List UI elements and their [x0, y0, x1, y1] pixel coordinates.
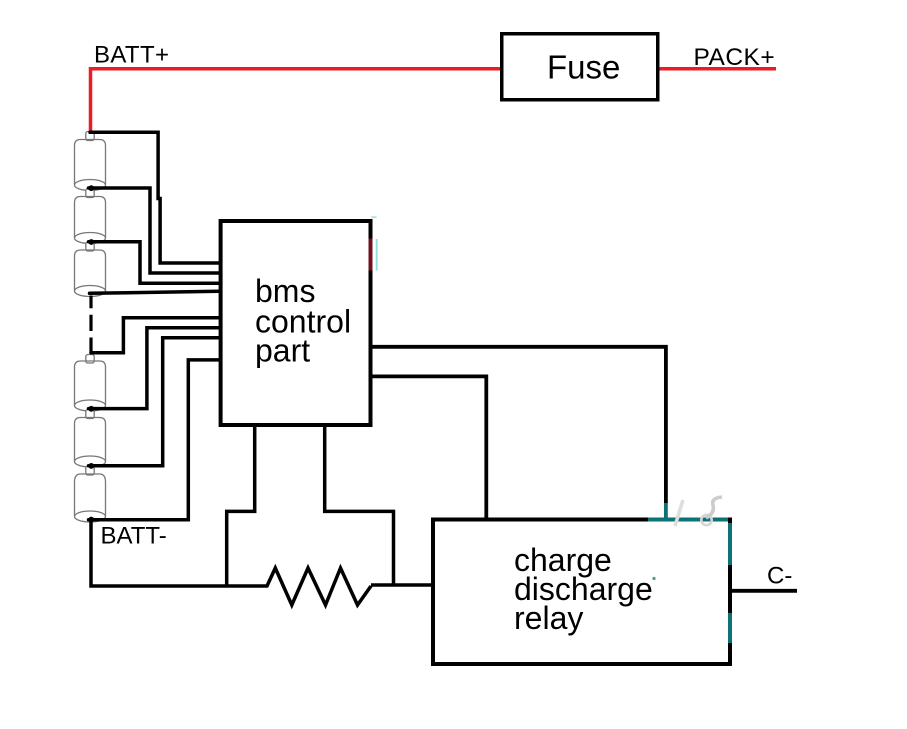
svg-text:BATT+: BATT+: [94, 42, 169, 69]
svg-text:C-: C-: [767, 563, 792, 590]
battery cell B1: [75, 132, 106, 191]
artifact teal dot near discharge text: [652, 577, 655, 580]
svg-text:relay: relay: [514, 600, 583, 636]
battery cell B3: [75, 242, 106, 297]
label charge discharge relay: [514, 542, 653, 636]
wire teal end of relay-drive wire: [664, 503, 668, 518]
wire BATT- down from cell6 to bottom rail: [91, 519, 267, 587]
battery cell B2: [75, 189, 106, 244]
wire cell4 top tap to bms pin5: [91, 318, 219, 353]
svg-text:PACK+: PACK+: [694, 44, 776, 71]
wire cell2/cell3 tap to bms pin3: [89, 242, 220, 283]
wire cell6 bottom tap to bms pin8: [89, 360, 220, 520]
relay K1 box (charge discharge relay): [433, 520, 730, 665]
wire bms right pin B to relay top (near): [371, 376, 486, 520]
wire dashed battery-string continuation: [89, 296, 92, 354]
wire BATT+ red bus (vertical drop + horizontal to fuse): [91, 69, 501, 134]
wire cell1/cell2 tap to bms pin2: [89, 188, 220, 273]
artifact teal top border segment of relay: [648, 518, 728, 522]
wire PACK+ red segment from fuse to PACK+: [660, 67, 777, 71]
svg-text:Fuse: Fuse: [547, 49, 620, 86]
wire bms bottom-right leg to resistor right: [325, 425, 394, 585]
battery cell B4: [75, 355, 106, 412]
wire cell1 top tap to bms pin1: [90, 132, 219, 263]
svg-text:BATT-: BATT-: [101, 523, 167, 550]
artifact cyan tick at bms top-right corner: [371, 216, 376, 218]
wire bms right pin A to relay top (far): [371, 347, 666, 503]
wire C- output from relay: [732, 589, 797, 593]
junction blobs at cell taps: [88, 185, 94, 522]
fuse F1 box: [502, 34, 658, 100]
artifact teal right border segments of relay: [728, 523, 732, 565]
artifact maroon tick on bms right border: [369, 239, 373, 271]
wire cell4/cell5 tap to bms pin6: [89, 328, 220, 409]
watermark grey marks above relay: [675, 497, 722, 526]
battery cell B6: [75, 466, 106, 522]
label bms control part: [255, 273, 351, 369]
resistor R1 (precharge/shunt): [267, 568, 371, 605]
bms control box U1: [221, 221, 371, 425]
wire resistor to relay box: [371, 583, 433, 587]
artifact cyan line right of bms box: [376, 239, 378, 271]
svg-text:part: part: [255, 333, 310, 369]
battery cell B5: [75, 410, 106, 468]
wire cell5/cell6 tap to bms pin7: [89, 338, 220, 466]
wire cell3 bottom tap to bms pin4: [90, 291, 220, 293]
wire bms bottom-left leg to resistor left: [227, 425, 255, 586]
